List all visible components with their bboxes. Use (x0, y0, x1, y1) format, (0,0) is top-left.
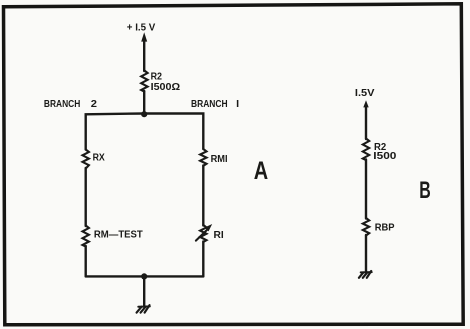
svg-text:I500: I500 (373, 151, 396, 162)
svg-text:BRANCH: BRANCH (191, 99, 228, 110)
svg-text:RX: RX (93, 153, 105, 164)
svg-text:R2: R2 (151, 71, 163, 82)
svg-text:A: A (254, 157, 268, 185)
svg-text:2: 2 (91, 99, 98, 110)
svg-text:I500Ω: I500Ω (151, 82, 181, 93)
svg-text:B: B (419, 177, 431, 204)
svg-text:RBP: RBP (375, 223, 395, 234)
svg-text:I.5V: I.5V (355, 88, 375, 99)
svg-text:BRANCH: BRANCH (44, 99, 80, 110)
svg-text:RM—TEST: RM—TEST (94, 230, 144, 241)
svg-text:RI: RI (214, 230, 224, 241)
svg-text:I: I (236, 99, 239, 110)
svg-text:+ I.5 V: + I.5 V (127, 22, 156, 33)
svg-text:RMI: RMI (211, 154, 228, 165)
